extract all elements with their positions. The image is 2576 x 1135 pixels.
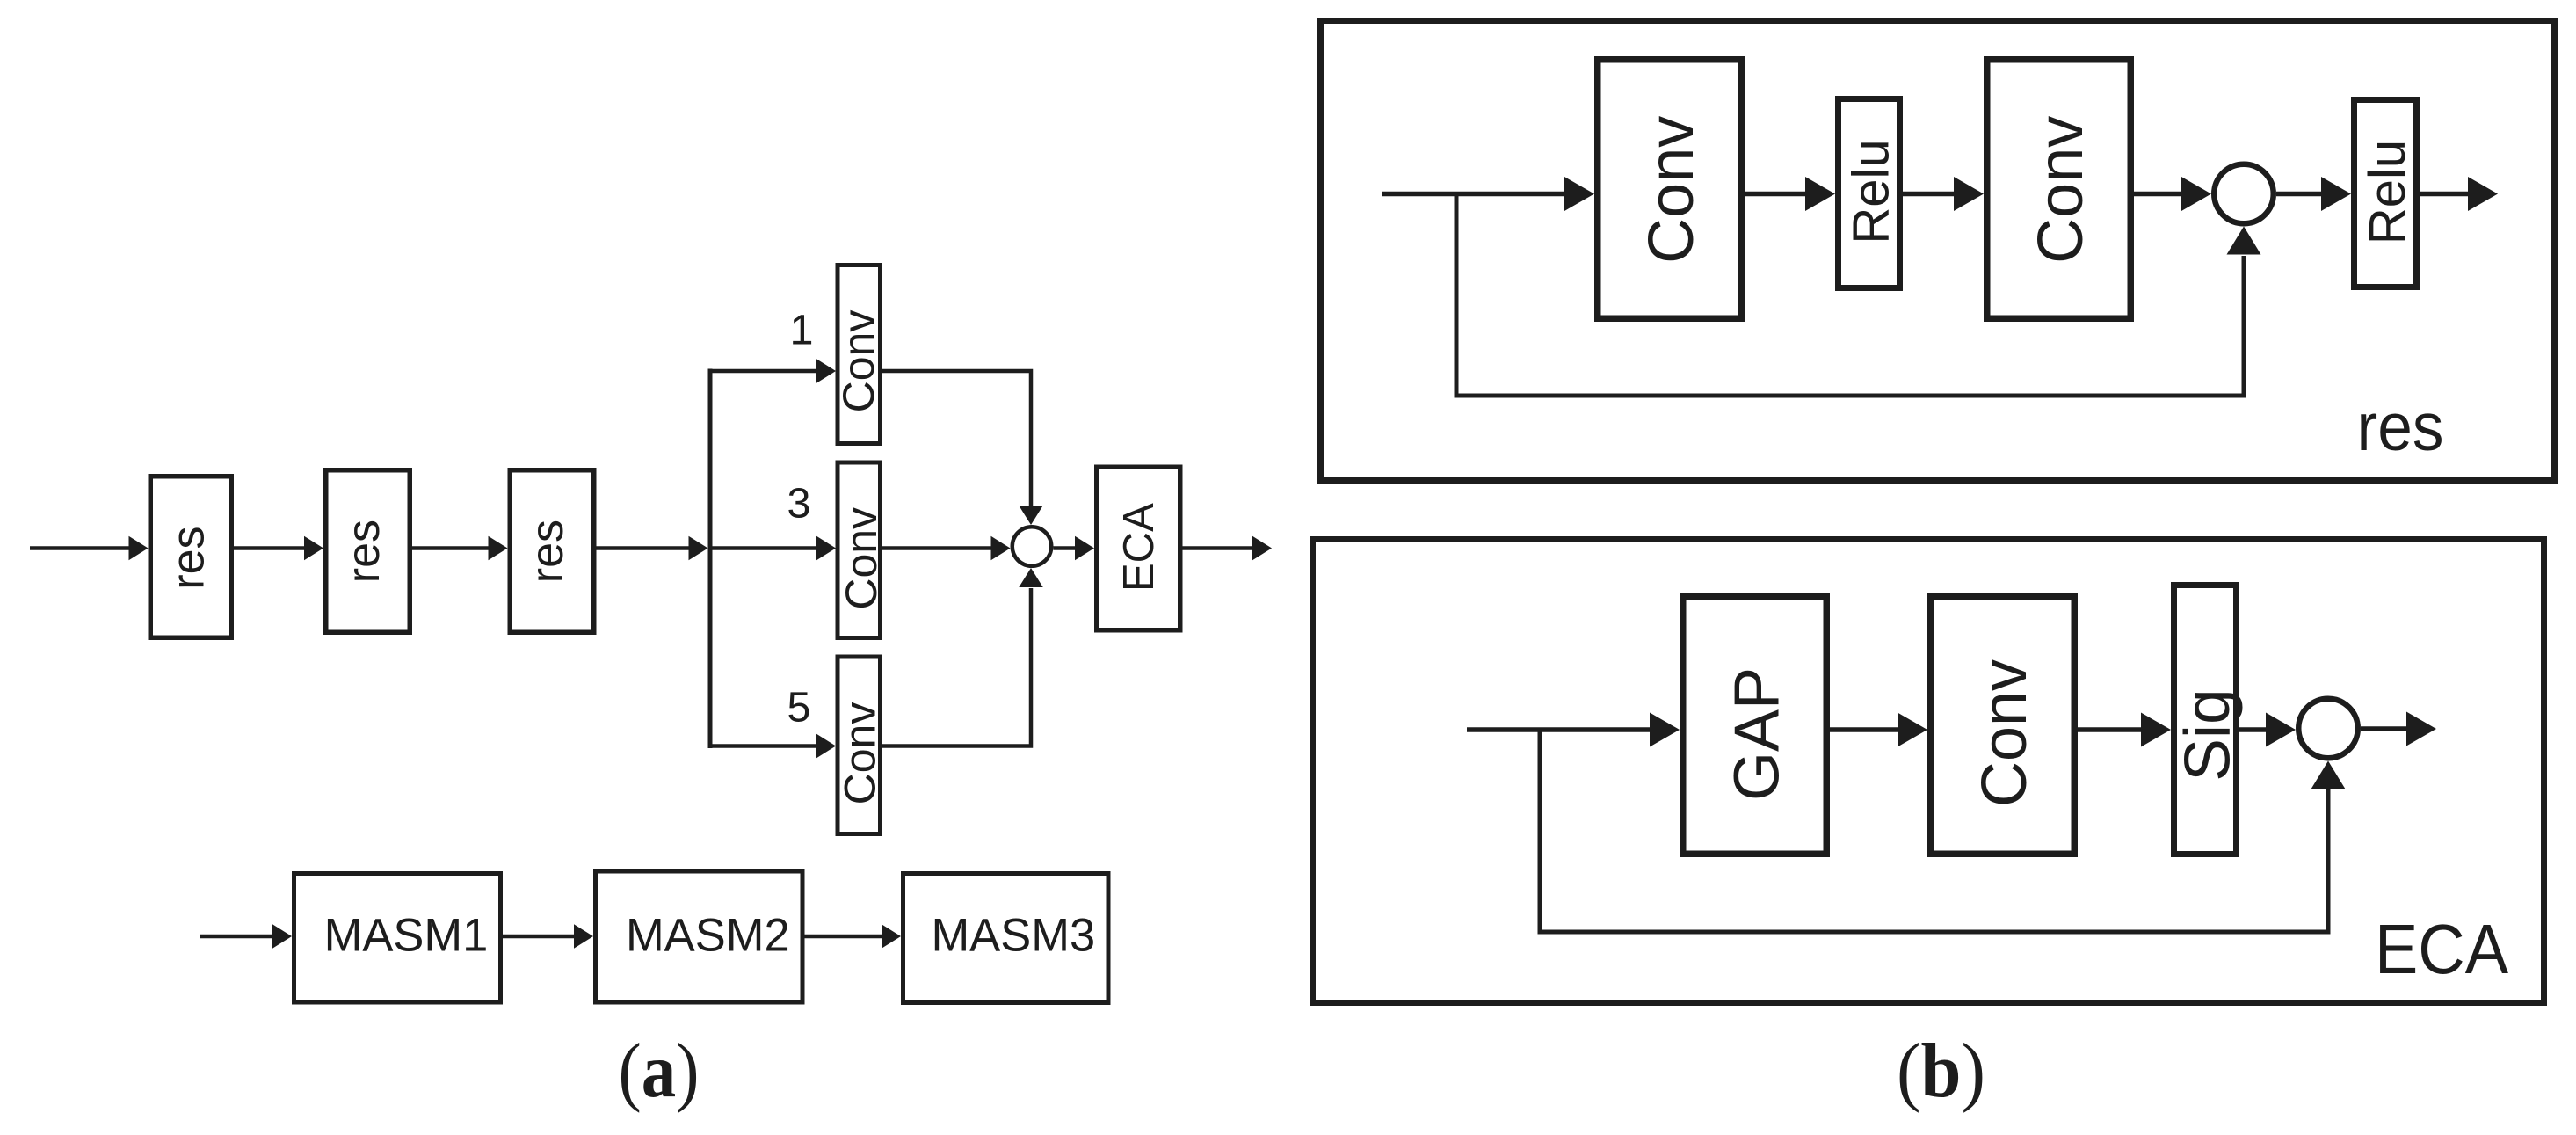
wire res3 to split [597, 546, 690, 550]
svg-text:5: 5 [787, 684, 811, 731]
wire GAP to Conv [1830, 727, 1898, 732]
arrowhead output (res) [2468, 177, 2498, 211]
arrowhead output (ECA) [2406, 712, 2436, 746]
arrowhead into MASM3 [882, 924, 901, 949]
outer frame res block [1321, 21, 2555, 481]
arrowhead into Relu2 [2321, 177, 2351, 211]
svg-text:Conv: Conv [837, 507, 886, 610]
svg-text:Relu: Relu [2359, 140, 2416, 244]
wire Conv1 to Relu1 [1745, 192, 1808, 197]
arrowhead into MASM2 [574, 924, 593, 949]
svg-text:res: res [522, 520, 573, 583]
wire Relu2 out [2420, 192, 2471, 197]
box res3 [510, 470, 594, 633]
arrowhead into GAP [1650, 713, 1680, 747]
box res1 [150, 477, 231, 638]
wire input to MASM1 [200, 935, 274, 939]
arrowhead output (a) [1252, 536, 1272, 561]
svg-text:Conv: Conv [1636, 116, 1707, 264]
box Conv (ECA) [1931, 597, 2075, 855]
wire mul out [2361, 726, 2409, 731]
arrowhead left into sum [991, 536, 1011, 561]
arrowhead into Conv1 (res) [1564, 177, 1594, 211]
svg-text:3: 3 [787, 480, 811, 527]
box MASM3 [903, 874, 1109, 1003]
box res2 [326, 470, 410, 633]
box Conv2 (res) [1987, 60, 2131, 319]
svg-text:res: res [2357, 389, 2444, 465]
wire branch k=1 [708, 369, 818, 374]
wire Sig to mul [2239, 727, 2267, 732]
arrowhead into res1 [129, 536, 149, 561]
arrowhead down into sum [1019, 506, 1043, 525]
wire input (ECA block) [1467, 727, 1652, 732]
wire skip connection (res) [1456, 194, 2244, 397]
box MASM1 [294, 874, 501, 1003]
box Conv1 (res) [1598, 60, 1742, 319]
arrowhead into ECA [1075, 536, 1094, 561]
mul junction (ECA) [2298, 699, 2358, 759]
svg-text:Sig: Sig [2172, 688, 2243, 782]
svg-text:Conv: Conv [1970, 659, 2040, 807]
box Conv k=5 [838, 657, 881, 834]
wire MASM2 to MASM3 [805, 935, 883, 939]
svg-text:ECA: ECA [2375, 910, 2509, 988]
box Relu1 [1839, 99, 1900, 288]
outer frame ECA block [1313, 540, 2544, 1003]
arrowhead skip into sum (res) [2227, 227, 2261, 255]
wire input (res block) [1382, 192, 1567, 197]
arrowhead into MASM1 [272, 924, 292, 949]
arrowhead into Conv k=1 [816, 359, 836, 383]
svg-text:Relu: Relu [1843, 139, 1900, 244]
svg-text:MASM3: MASM3 [931, 910, 1095, 962]
svg-text:res: res [338, 520, 389, 583]
wire skip connection (ECA) [1540, 730, 2328, 932]
svg-text:Conv: Conv [834, 310, 883, 413]
box ECA [1097, 467, 1180, 630]
wire res1 to res2 [234, 546, 305, 550]
arrowhead into Conv (ECA) [1898, 713, 1927, 747]
svg-text:MASM1: MASM1 [324, 910, 489, 962]
wire res2 to res3 [412, 546, 490, 550]
wire branch k=3 [710, 546, 817, 550]
wire Conv k=1 to sum [882, 371, 1031, 506]
svg-text:ECA: ECA [1115, 503, 1163, 592]
svg-text:Conv: Conv [836, 702, 885, 805]
wire Conv2 to sum (res) [2134, 192, 2185, 197]
box Sig [2174, 586, 2237, 855]
wire Conv k=3 to sum [882, 546, 993, 550]
box GAP [1683, 597, 1827, 855]
arrowhead into res2 [304, 536, 323, 561]
svg-text:MASM2: MASM2 [626, 910, 790, 962]
wire branch k=5 [708, 744, 818, 748]
arrowhead into mul (ECA) [2266, 713, 2296, 747]
arrowhead into res3 [489, 536, 508, 561]
box Conv k=1 [838, 266, 881, 444]
sum junction (res) [2214, 164, 2274, 224]
wire Conv k=5 to sum [882, 588, 1031, 746]
arrowhead at split node [689, 536, 708, 561]
arrowhead into Conv k=5 [816, 734, 836, 759]
svg-text:1: 1 [790, 307, 814, 354]
box Relu2 [2355, 100, 2417, 287]
arrowhead into sum (res) [2181, 177, 2211, 211]
wire: input to res1 [30, 546, 130, 550]
wire sum to Relu2 [2276, 192, 2325, 197]
sum junction (a) [1012, 527, 1052, 566]
arrowhead into Relu1 [1805, 177, 1835, 211]
arrowhead into Sig [2141, 713, 2171, 747]
box Conv k=3 [838, 462, 881, 638]
svg-text:res: res [163, 526, 214, 589]
wire sum to ECA [1054, 546, 1079, 550]
wire Relu1 to Conv2 [1903, 192, 1956, 197]
wire ECA out [1183, 546, 1255, 550]
svg-text:Conv: Conv [2026, 116, 2096, 264]
box MASM2 [596, 871, 803, 1002]
wire split vertical [708, 369, 713, 749]
arrowhead up into sum [1019, 568, 1043, 587]
svg-text:(a): (a) [619, 1029, 700, 1114]
svg-text:GAP: GAP [1723, 667, 1793, 801]
wire MASM1 to MASM2 [503, 935, 576, 939]
arrowhead into Conv k=3 [816, 536, 836, 561]
arrowhead into Conv2 (res) [1954, 177, 1984, 211]
svg-text:(b): (b) [1897, 1029, 1985, 1114]
wire Conv to Sig [2078, 727, 2142, 732]
arrowhead skip into mul (ECA) [2311, 761, 2346, 789]
